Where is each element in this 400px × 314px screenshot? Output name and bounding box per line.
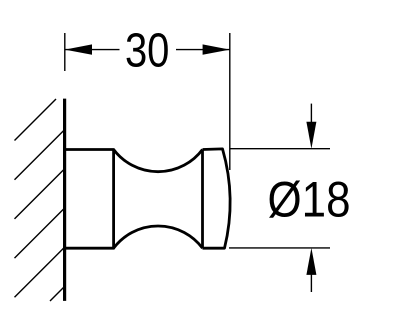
svg-text:Ø18: Ø18 [268,172,351,228]
svg-text:30: 30 [125,24,170,78]
